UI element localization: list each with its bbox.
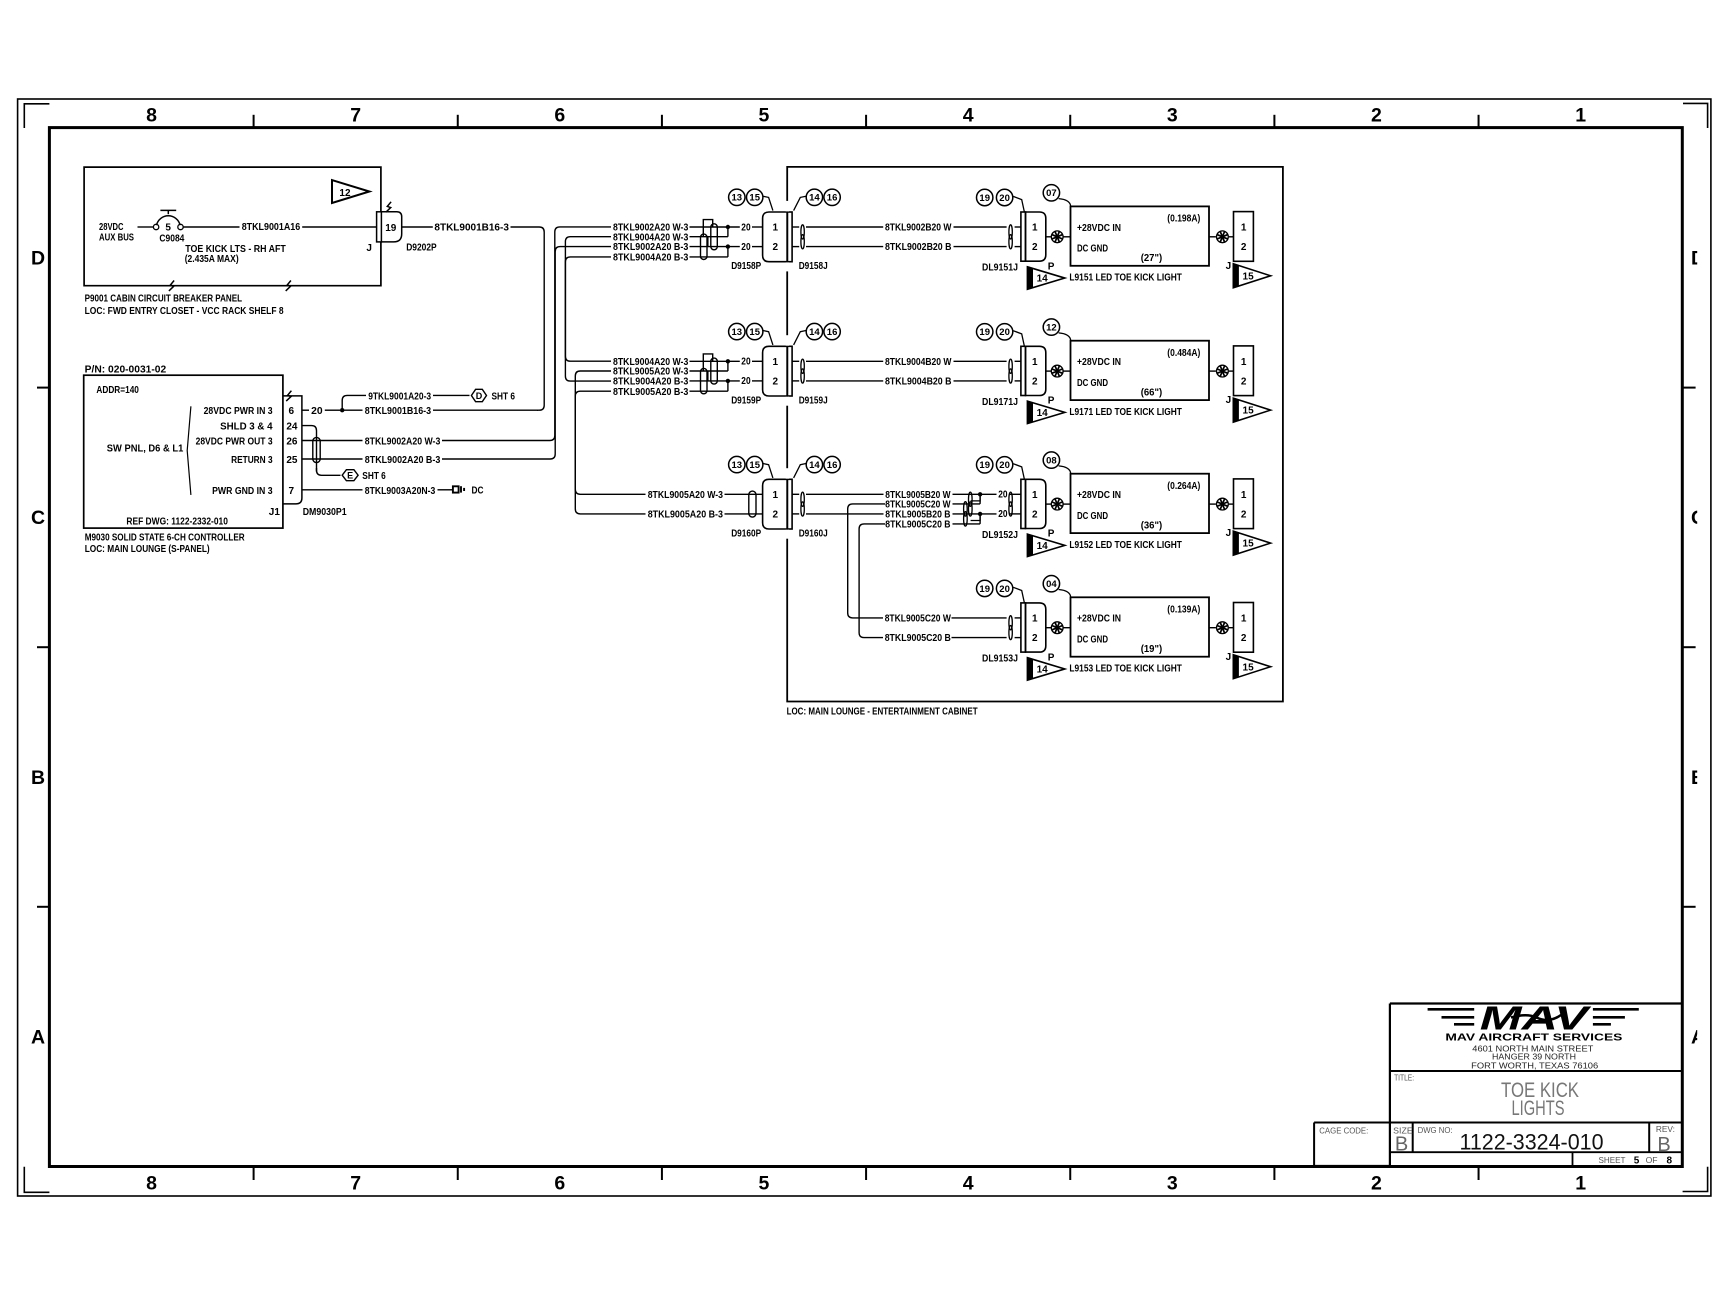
svg-text:19: 19: [979, 584, 990, 595]
circled 19 at DL9151J: [977, 189, 993, 205]
svg-text:SHT 6: SHT 6: [492, 392, 516, 403]
svg-text:25: 25: [286, 455, 298, 466]
svg-text:16: 16: [827, 193, 838, 204]
connector DL9171J body: [1026, 346, 1046, 395]
zone letter C right (clipped): [1691, 507, 1705, 529]
connector D9158P circled 13: [729, 189, 745, 205]
svg-text:(36"): (36"): [1141, 520, 1163, 531]
svg-text:DC GND: DC GND: [1077, 378, 1108, 389]
wire 8TKL9002A20 B-3 from pin 25: [302, 458, 363, 460]
M9030 connector J1 pin column: [283, 396, 302, 504]
svg-text:DL9152J: DL9152J: [982, 530, 1018, 541]
svg-text:+28VDC IN: +28VDC IN: [1077, 223, 1121, 234]
twisted pair stadium 1: [711, 224, 718, 250]
svg-text:14: 14: [1037, 541, 1049, 552]
svg-text:1: 1: [1032, 223, 1038, 234]
svg-text:2: 2: [1371, 105, 1382, 127]
connector D9158P plug body: [763, 212, 788, 262]
shield symbol around pins 26/25 wires: [313, 437, 320, 462]
junction node pin1 splice: [726, 225, 730, 229]
svg-text:LIGHTS: LIGHTS: [1512, 1097, 1565, 1120]
svg-text:14: 14: [809, 460, 820, 471]
svg-text:8TKL9002B20 B: 8TKL9002B20 B: [885, 242, 952, 253]
svg-text:D: D: [476, 391, 483, 401]
svg-text:LOC: MAIN LOUNGE - ENTERTAI: LOC: MAIN LOUNGE - ENTERTAINMENT CABINET: [787, 707, 978, 718]
svg-text:SHLD 3 & 4: SHLD 3 & 4: [220, 421, 273, 432]
corner mark bottom-right: [1683, 1167, 1708, 1192]
circled 04 at L9153: [1043, 576, 1059, 592]
svg-text:ADDR=140: ADDR=140: [96, 385, 139, 396]
svg-text:04: 04: [1046, 579, 1057, 590]
svg-text:DC GND: DC GND: [1077, 635, 1108, 646]
twisted pair before DL9151J: [1009, 225, 1012, 239]
zone tick bottom: [661, 1167, 663, 1181]
svg-text:8TKL9005A20 B-3: 8TKL9005A20 B-3: [648, 510, 724, 521]
svg-text:J: J: [1226, 528, 1232, 539]
svg-text:19: 19: [385, 223, 397, 234]
svg-text:L9153 LED TOE KICK LIGHT: L9153 LED TOE KICK LIGHT: [1069, 663, 1182, 674]
svg-text:8TKL9005A20 B-3: 8TKL9005A20 B-3: [613, 387, 689, 398]
svg-text:20: 20: [741, 222, 751, 233]
svg-text:9TKL9001A20-3: 9TKL9001A20-3: [368, 391, 431, 402]
zone tick right: [1682, 906, 1695, 908]
rev box: [1648, 1123, 1650, 1153]
svg-text:8: 8: [146, 105, 157, 127]
zone tick top: [1478, 115, 1480, 128]
svg-text:15: 15: [749, 460, 760, 471]
harness flag 14 at DL9171J: [1027, 401, 1064, 424]
svg-text:D: D: [31, 248, 45, 270]
twisted pair before DL9153J: [1009, 616, 1012, 630]
circled 08 at L9152: [1043, 452, 1059, 468]
svg-text:19: 19: [979, 327, 990, 338]
svg-text:(0.264A): (0.264A): [1167, 481, 1200, 492]
splice at L9152 input: [1046, 503, 1052, 505]
twisted pair chain A: [969, 492, 973, 506]
leader from 20 to DL9153J: [1013, 587, 1024, 602]
svg-text:7: 7: [350, 105, 361, 127]
splice at L9151 output: [1209, 236, 1216, 238]
wire 8TKL9005A20 vertical (B): [575, 391, 645, 514]
splice at L9171 output: [1209, 370, 1216, 372]
connector D9160J receptacle face: [787, 479, 792, 529]
connector DL9151J body: [1026, 212, 1046, 261]
svg-text:DC GND: DC GND: [1077, 511, 1108, 522]
sheet band: [1390, 1151, 1682, 1153]
junction node pin1 splice: [726, 359, 730, 363]
svg-text:20: 20: [999, 327, 1010, 338]
svg-text:2: 2: [1032, 242, 1038, 253]
svg-text:15: 15: [1243, 406, 1255, 417]
svg-text:SHEET: SHEET: [1599, 1155, 1626, 1165]
splice loop-over: [703, 220, 712, 237]
svg-text:OF: OF: [1646, 1155, 1658, 1165]
svg-text:L9152 LED TOE KICK LIGHT: L9152 LED TOE KICK LIGHT: [1069, 540, 1182, 551]
connector D9160P circled 13: [729, 456, 745, 472]
svg-text:M9030 SOLID STATE 6-CH CONTROL: M9030 SOLID STATE 6-CH CONTROLLER: [85, 533, 246, 544]
svg-text:DWG NO:: DWG NO:: [1418, 1125, 1453, 1135]
svg-text:P/N: 020-0031-02: P/N: 020-0031-02: [85, 364, 167, 375]
break squiggle on P9001 right edge above connector: [386, 202, 391, 212]
zone tick left: [37, 646, 49, 648]
svg-text:19: 19: [979, 460, 990, 471]
leader from 14 to D9158J: [794, 196, 806, 210]
zone tick left: [37, 387, 49, 389]
splice hop loops at DL9152J: [971, 494, 981, 501]
wire 8TKL9005B20 B: [792, 513, 799, 515]
svg-text:8TKL9004A20 B-3: 8TKL9004A20 B-3: [613, 253, 689, 264]
wire 8TKL9004B20 B: [792, 380, 799, 382]
svg-text:(19"): (19"): [1141, 644, 1163, 655]
circled 20 at DL9171J: [996, 324, 1012, 340]
svg-text:RETURN 3: RETURN 3: [231, 455, 273, 466]
svg-text:P: P: [1048, 652, 1055, 663]
wire 8TKL9002B20 B: [792, 246, 799, 248]
svg-text:15: 15: [1243, 271, 1255, 282]
svg-text:15: 15: [749, 193, 760, 204]
svg-text:1: 1: [1032, 490, 1038, 501]
svg-text:8TKL9005C20 W: 8TKL9005C20 W: [885, 614, 952, 625]
svg-text:16: 16: [827, 460, 838, 471]
svg-text:LOC: MAIN LOUNGE (S-PANEL): LOC: MAIN LOUNGE (S-PANEL): [85, 544, 210, 555]
svg-text:(0.484A): (0.484A): [1167, 348, 1200, 359]
corner mark bottom-left: [24, 1167, 49, 1193]
svg-text:DL9171J: DL9171J: [982, 397, 1018, 408]
connector D9159P circled 15: [747, 323, 763, 339]
sheet-12 flag triangle: [332, 180, 369, 203]
corner mark top-left: [24, 104, 49, 128]
svg-text:2: 2: [773, 242, 779, 253]
svg-text:14: 14: [1037, 665, 1049, 676]
svg-text:D9202P: D9202P: [406, 243, 437, 254]
svg-text:8TKL9005C20 B: 8TKL9005C20 B: [885, 633, 951, 644]
connector DL9152J body: [1026, 479, 1046, 528]
junction node light3 pin2 splice: [978, 512, 982, 516]
junction node pin6 wire: [340, 408, 344, 412]
svg-text:1122-3324-010: 1122-3324-010: [1460, 1130, 1604, 1155]
connector D9158J circled 14: [806, 189, 822, 205]
svg-text:5: 5: [1634, 1156, 1640, 1167]
svg-text:D9159J: D9159J: [799, 396, 828, 407]
svg-text:J: J: [1226, 652, 1232, 663]
svg-text:B: B: [31, 767, 45, 789]
wire 8TKL9005C20 B (tee to light 4): [859, 524, 885, 638]
leader from 20 to DL9152J: [1013, 464, 1024, 479]
svg-text:2: 2: [1241, 633, 1247, 644]
connector D9159J circled 16: [824, 323, 840, 339]
svg-text:J: J: [366, 243, 372, 254]
leader from 15 to D9158P: [763, 196, 773, 210]
leader from 15 to D9160P: [763, 464, 773, 478]
svg-text:3: 3: [1167, 105, 1178, 127]
break squiggle on P9001 bottom edge (right): [286, 281, 291, 291]
svg-text:(66"): (66"): [1141, 387, 1163, 398]
zone letter A right (clipped): [1691, 1026, 1705, 1048]
svg-text:D9160J: D9160J: [799, 529, 828, 540]
svg-text:20: 20: [999, 460, 1010, 471]
output connector at L9171: [1234, 346, 1254, 396]
size box: [1412, 1123, 1414, 1153]
svg-text:2: 2: [773, 510, 779, 521]
twisted pair stadium 2: [701, 368, 708, 393]
svg-text:2: 2: [773, 377, 779, 388]
wire pin 24 shield drain: [302, 426, 317, 472]
svg-text:16: 16: [827, 327, 838, 338]
svg-text:7: 7: [289, 486, 295, 497]
connector D9159J circled 14: [806, 323, 822, 339]
svg-text:J: J: [1226, 261, 1232, 272]
svg-text:(0.139A): (0.139A): [1167, 605, 1200, 616]
svg-text:AUX BUS: AUX BUS: [99, 233, 134, 244]
zone tick bottom: [1478, 1167, 1480, 1181]
wire 8TKL9001A16: [183, 226, 239, 228]
connector D9159P plug body: [763, 346, 788, 396]
svg-text:8TKL9001A16: 8TKL9001A16: [242, 222, 301, 233]
zone tick top: [865, 115, 867, 128]
zone tick top: [1069, 115, 1071, 128]
DC ground symbol: [453, 486, 459, 492]
svg-text:20: 20: [999, 193, 1010, 204]
connector DL9153J body: [1026, 603, 1046, 652]
zone letter D right (clipped): [1691, 248, 1705, 270]
circuit breaker C9084 (5A): [153, 224, 158, 229]
connector D9158J receptacle face: [787, 212, 792, 262]
svg-text:12: 12: [1046, 323, 1057, 334]
svg-text:(0.198A): (0.198A): [1167, 214, 1200, 225]
connector D9160P circled 15: [747, 456, 763, 472]
wire 8TKL9004B20 W: [792, 360, 799, 362]
svg-text:8: 8: [1667, 1156, 1673, 1167]
svg-text:P: P: [1048, 529, 1055, 540]
svg-text:1: 1: [1241, 357, 1247, 368]
svg-text:8TKL9002B20 W: 8TKL9002B20 W: [885, 223, 952, 234]
svg-text:2: 2: [1032, 510, 1038, 521]
zone letter B right (clipped): [1691, 767, 1705, 789]
svg-text:24: 24: [286, 421, 298, 432]
svg-text:15: 15: [749, 327, 760, 338]
entertainment cabinet enclosure box: [787, 167, 1283, 702]
P9001 cabin circuit breaker panel box: [84, 167, 381, 286]
svg-text:J: J: [1226, 395, 1232, 406]
twisted pair stadium 2: [701, 234, 708, 259]
light unit L9171 box: [1071, 341, 1210, 400]
connector DL9171J receptacle face: [1021, 346, 1026, 395]
connector D9159P circled 13: [729, 323, 745, 339]
zone tick bottom: [457, 1167, 459, 1181]
svg-text:DL9151J: DL9151J: [982, 263, 1018, 274]
zone tick bottom: [865, 1167, 867, 1181]
break squiggle on P9001 bottom edge (left): [169, 281, 174, 291]
svg-text:5: 5: [759, 1173, 770, 1195]
zone tick top: [253, 115, 255, 128]
svg-text:6: 6: [554, 1173, 565, 1195]
output connector at L9152: [1234, 479, 1254, 529]
zone tick right: [1682, 387, 1695, 389]
svg-text:C9084: C9084: [159, 233, 184, 244]
twisted pair before DL9152J: [1009, 492, 1012, 506]
splice loop-over: [703, 354, 712, 371]
circled 07 at L9151: [1043, 185, 1059, 201]
twisted pair symbol after D9160J: [801, 492, 804, 506]
svg-text:SW PNL, D6 & L1: SW PNL, D6 & L1: [107, 443, 184, 454]
harness flag 14 at DL9151J: [1027, 267, 1064, 290]
wire 9TKL9001A20-3 branch to sheet 6: [342, 395, 366, 410]
connector D9160J circled 16: [824, 456, 840, 472]
svg-text:6: 6: [289, 406, 295, 417]
wire 8TKL9001B16-3 from D9202P: [402, 226, 433, 228]
zone tick top: [457, 115, 459, 128]
junction node light3 pin1 splice: [978, 492, 982, 496]
svg-text:28VDC: 28VDC: [99, 222, 124, 233]
svg-text:+28VDC IN: +28VDC IN: [1077, 357, 1121, 368]
off-sheet hexagon E: [342, 470, 358, 481]
svg-text:SHT 6: SHT 6: [362, 471, 386, 482]
light unit L9152 box: [1071, 474, 1210, 533]
circled 20 at DL9153J: [996, 580, 1012, 596]
connector DL9151J receptacle face: [1021, 212, 1026, 261]
twisted pair stadium 1: [711, 358, 718, 384]
svg-text:4: 4: [963, 1173, 974, 1195]
svg-text:REF DWG: 1122-2332-010: REF DWG: 1122-2332-010: [126, 516, 228, 527]
svg-text:(27"): (27"): [1141, 253, 1163, 264]
splice at L9153 output: [1209, 627, 1216, 629]
svg-text:15: 15: [1243, 539, 1255, 550]
svg-text:14: 14: [809, 327, 820, 338]
splice at L9152 output: [1209, 503, 1216, 505]
connector DL9152J receptacle face: [1021, 479, 1026, 528]
wire 8TKL9005B20 W: [792, 493, 799, 495]
wire 8TKL9005A20 vertical (W): [575, 371, 645, 494]
svg-text:2: 2: [1371, 1173, 1382, 1195]
output connector at L9151: [1234, 212, 1254, 262]
svg-text:P: P: [1048, 261, 1055, 272]
svg-text:1: 1: [1575, 1173, 1586, 1195]
zone tick left: [37, 906, 49, 908]
connector D9158J circled 16: [824, 189, 840, 205]
cage code box: [1313, 1123, 1315, 1166]
twisted pair symbol after D9158J: [801, 225, 804, 239]
svg-text:1: 1: [1032, 357, 1038, 368]
svg-text:8TKL9003A20N-3: 8TKL9003A20N-3: [365, 486, 436, 497]
svg-text:C: C: [31, 507, 45, 529]
title block outline: [1390, 1002, 1682, 1004]
svg-text:1: 1: [773, 490, 779, 501]
svg-text:26: 26: [286, 436, 298, 447]
svg-text:1: 1: [1575, 105, 1586, 127]
connector D9159J receptacle face: [787, 346, 792, 396]
svg-text:2: 2: [1241, 242, 1247, 253]
svg-text:3: 3: [1167, 1173, 1178, 1195]
svg-text:E: E: [347, 471, 353, 481]
wire 8TKL9005C20 W (tee to light 4): [848, 504, 886, 618]
twisted pair before DL9171J: [1009, 359, 1012, 373]
svg-text:TITLE:: TITLE:: [1394, 1073, 1414, 1083]
harness flag 15 at L9151: [1233, 264, 1270, 288]
harness flag 15 at L9153: [1233, 655, 1270, 679]
svg-text:D9160P: D9160P: [731, 529, 761, 540]
svg-text:1: 1: [1032, 614, 1038, 625]
svg-text:20: 20: [999, 584, 1010, 595]
leader from 20 to DL9151J: [1013, 196, 1024, 211]
off-sheet hexagon D: [471, 389, 486, 401]
splice at L9153 input: [1046, 627, 1052, 629]
zone tick bottom: [253, 1167, 255, 1181]
wire 28VDC bus to breaker: [138, 226, 154, 228]
connector D9160P plug body: [763, 479, 788, 529]
svg-text:12: 12: [339, 188, 351, 199]
svg-text:D9158J: D9158J: [799, 261, 828, 272]
harness flag 15 at L9171: [1233, 398, 1270, 422]
svg-text:13: 13: [732, 193, 743, 204]
svg-text:8TKL9004B20 B: 8TKL9004B20 B: [885, 377, 952, 388]
svg-text:8TKL9004B20 W: 8TKL9004B20 W: [885, 357, 952, 368]
svg-text:08: 08: [1046, 456, 1057, 467]
svg-text:28VDC PWR OUT 3: 28VDC PWR OUT 3: [196, 436, 273, 447]
svg-text:2: 2: [1032, 633, 1038, 644]
svg-text:4: 4: [963, 105, 974, 127]
svg-text:5: 5: [165, 223, 171, 234]
svg-text:LOC: FWD ENTRY CLOSET - VCC RA: LOC: FWD ENTRY CLOSET - VCC RACK SHELF 8: [85, 306, 284, 317]
svg-text:14: 14: [809, 193, 820, 204]
svg-text:D9158P: D9158P: [731, 261, 761, 272]
svg-text:PWR GND IN 3: PWR GND IN 3: [212, 486, 273, 497]
svg-text:FORT WORTH, TEXAS 76106: FORT WORTH, TEXAS 76106: [1471, 1062, 1598, 1071]
svg-text:+28VDC IN: +28VDC IN: [1077, 614, 1121, 625]
svg-text:2: 2: [1032, 377, 1038, 388]
zone tick top: [661, 115, 663, 128]
svg-text:1: 1: [1241, 614, 1247, 625]
connector D9158P circled 15: [747, 189, 763, 205]
break squiggle on J1 pin column top: [286, 391, 291, 401]
svg-text:20: 20: [741, 242, 751, 253]
circled 20 at DL9152J: [996, 457, 1012, 473]
svg-text:07: 07: [1046, 188, 1057, 199]
svg-text:L9171 LED TOE KICK LIGHT: L9171 LED TOE KICK LIGHT: [1069, 407, 1182, 418]
svg-text:20: 20: [998, 490, 1008, 501]
svg-text:8: 8: [146, 1173, 157, 1195]
connector D9160J circled 14: [806, 456, 822, 472]
svg-text:2: 2: [1241, 510, 1247, 521]
leader from 20 to DL9171J: [1013, 331, 1024, 346]
circled 12 at L9171: [1043, 319, 1059, 335]
border inner frame: [49, 128, 1682, 1167]
svg-text:20: 20: [741, 376, 751, 387]
svg-text:14: 14: [1037, 274, 1049, 285]
svg-text:28VDC PWR IN 3: 28VDC PWR IN 3: [204, 406, 273, 417]
circled 19 at DL9152J: [977, 457, 993, 473]
svg-text:8TKL9005A20 W-3: 8TKL9005A20 W-3: [648, 490, 724, 501]
svg-text:1: 1: [773, 357, 779, 368]
twisted pair symbol after D9159J: [801, 359, 804, 373]
svg-text:1: 1: [1241, 490, 1247, 501]
svg-text:P: P: [1048, 396, 1055, 407]
wire pin 6 to 20 gauge: [302, 409, 309, 411]
junction node pin2 splice: [726, 379, 730, 383]
twisted pair stadium: [749, 491, 756, 517]
circled 19 at DL9153J: [977, 580, 993, 596]
svg-text:MAV AIRCRAFT SERVICES: MAV AIRCRAFT SERVICES: [1445, 1032, 1622, 1044]
svg-text:8TKL9002A20 B-3: 8TKL9002A20 B-3: [365, 455, 441, 466]
zone tick bottom: [1273, 1167, 1275, 1181]
svg-text:HANGER 39 NORTH: HANGER 39 NORTH: [1492, 1053, 1576, 1062]
svg-text:20: 20: [741, 357, 751, 368]
leader from 14 to D9159J: [794, 331, 806, 345]
svg-text:D9159P: D9159P: [731, 396, 761, 407]
svg-text:CAGE CODE:: CAGE CODE:: [1319, 1125, 1368, 1135]
wire 8TKL9004A20 vertical (W): [565, 237, 611, 362]
corner mark top-right: [1683, 103, 1708, 128]
connector DL9153J receptacle face: [1021, 603, 1026, 652]
